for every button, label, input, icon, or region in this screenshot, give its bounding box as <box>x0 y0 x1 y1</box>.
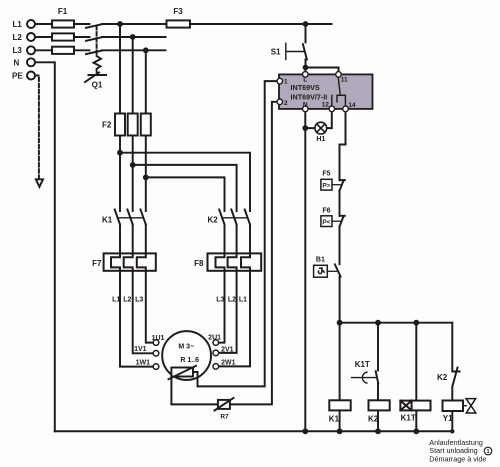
svg-text:L1: L1 <box>239 296 247 303</box>
svg-text:L2: L2 <box>123 296 131 303</box>
svg-text:F6: F6 <box>322 207 330 214</box>
svg-text:1W1: 1W1 <box>136 359 151 366</box>
svg-text:F7: F7 <box>92 259 102 268</box>
svg-text:F3: F3 <box>173 7 183 16</box>
svg-text:PE: PE <box>12 71 23 80</box>
svg-text:N: N <box>303 102 308 109</box>
svg-text:INT69VS: INT69VS <box>291 83 320 92</box>
svg-text:1: 1 <box>486 449 489 455</box>
svg-text:L1: L1 <box>13 20 23 29</box>
svg-text:L3: L3 <box>13 46 23 55</box>
svg-text:K2: K2 <box>208 215 219 224</box>
svg-text:Y1: Y1 <box>443 414 453 423</box>
svg-text:H1: H1 <box>316 136 325 143</box>
svg-text:B1: B1 <box>316 257 325 264</box>
svg-text:L3: L3 <box>135 296 143 303</box>
svg-text:L3: L3 <box>216 296 224 303</box>
svg-text:S1: S1 <box>271 47 281 56</box>
svg-text:Q1: Q1 <box>92 80 103 89</box>
svg-text:2V1: 2V1 <box>221 346 234 353</box>
svg-text:L1: L1 <box>112 296 120 303</box>
svg-text:R7: R7 <box>220 413 229 420</box>
svg-text:2: 2 <box>284 100 288 107</box>
svg-text:K1T: K1T <box>401 414 416 423</box>
svg-text:P<: P< <box>322 219 330 226</box>
svg-text:F8: F8 <box>194 259 204 268</box>
svg-text:INT69V/7-II: INT69V/7-II <box>291 92 328 101</box>
svg-text:N: N <box>14 58 20 67</box>
svg-text:K1T: K1T <box>355 360 370 369</box>
svg-text:11: 11 <box>341 77 348 84</box>
svg-text:F2: F2 <box>102 121 112 130</box>
svg-text:M 3~: M 3~ <box>178 344 194 351</box>
svg-text:F5: F5 <box>322 171 330 178</box>
svg-text:F1: F1 <box>58 7 68 16</box>
svg-text:1: 1 <box>284 79 288 86</box>
svg-text:Démarrage à vide: Démarrage à vide <box>429 455 486 464</box>
svg-text:2U1: 2U1 <box>208 335 221 342</box>
svg-text:L2: L2 <box>13 33 23 42</box>
svg-text:L2: L2 <box>228 296 236 303</box>
svg-text:K1: K1 <box>102 215 113 224</box>
svg-text:12: 12 <box>322 102 330 109</box>
svg-text:K2: K2 <box>437 373 448 382</box>
svg-text:1U1: 1U1 <box>152 335 165 342</box>
svg-text:2W1: 2W1 <box>221 359 236 366</box>
svg-text:1V1: 1V1 <box>134 346 147 353</box>
svg-text:P>: P> <box>322 183 330 190</box>
svg-text:14: 14 <box>348 102 356 109</box>
svg-text:R 1..6: R 1..6 <box>180 357 199 364</box>
svg-text:K1: K1 <box>329 414 340 423</box>
svg-text:K2: K2 <box>368 414 379 423</box>
